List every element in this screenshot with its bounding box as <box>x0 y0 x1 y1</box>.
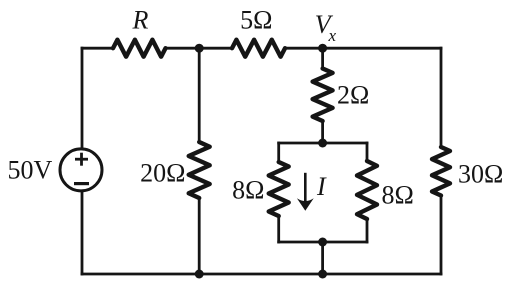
svg-text:30Ω: 30Ω <box>458 160 503 189</box>
wire parallel left branch lower <box>277 216 280 242</box>
svg-text:R: R <box>132 6 149 35</box>
node dot top-left junction <box>195 44 204 53</box>
wire 2ohm branch upper <box>321 48 324 68</box>
resistor 8ohm left <box>269 162 289 216</box>
voltage source minus sign <box>74 182 89 185</box>
wire right vertical lower <box>440 196 443 275</box>
svg-text:x: x <box>328 26 337 45</box>
resistor 20ohm <box>189 142 210 198</box>
wire 2ohm branch lower <box>321 121 324 143</box>
svg-text:8Ω: 8Ω <box>382 181 414 210</box>
wire left vertical lower <box>81 191 84 274</box>
resistor R <box>113 40 166 57</box>
svg-text:2Ω: 2Ω <box>337 81 369 110</box>
wire parallel left branch upper <box>277 143 280 162</box>
wire 20ohm branch lower <box>198 198 201 274</box>
wire parallel bottom bar <box>279 241 367 244</box>
wire right vertical upper <box>440 48 443 147</box>
node dot parallel bottom <box>318 238 327 247</box>
wire 5ohm to top-right corner <box>285 47 441 50</box>
voltage source plus sign <box>75 153 88 166</box>
voltage source V1 circle <box>60 149 102 191</box>
wire bottom <box>82 273 441 276</box>
resistor 8ohm right <box>357 161 377 219</box>
node dot bottom wire left <box>195 270 204 279</box>
node Vx dot <box>318 44 327 53</box>
svg-text:50V: 50V <box>8 156 53 185</box>
svg-text:I: I <box>316 172 327 201</box>
resistor 30ohm <box>432 147 450 196</box>
current arrow I <box>297 173 314 211</box>
svg-text:5Ω: 5Ω <box>240 6 272 35</box>
wire between R and 5ohm <box>166 47 233 50</box>
node dot bottom wire middle <box>318 270 327 279</box>
resistor 5ohm <box>232 40 285 57</box>
wire parallel right branch upper <box>366 143 369 161</box>
wire top-left segment <box>82 47 113 50</box>
node dot parallel top <box>318 139 327 148</box>
svg-text:20Ω: 20Ω <box>140 159 185 188</box>
svg-text:8Ω: 8Ω <box>232 176 264 205</box>
resistor 2ohm <box>313 69 333 122</box>
wire parallel right branch lower <box>366 219 369 242</box>
wire parallel top bar <box>279 142 367 145</box>
wire left vertical upper <box>81 48 84 148</box>
wire middle drop to bottom <box>321 242 324 274</box>
wire 20ohm branch upper <box>198 48 201 142</box>
